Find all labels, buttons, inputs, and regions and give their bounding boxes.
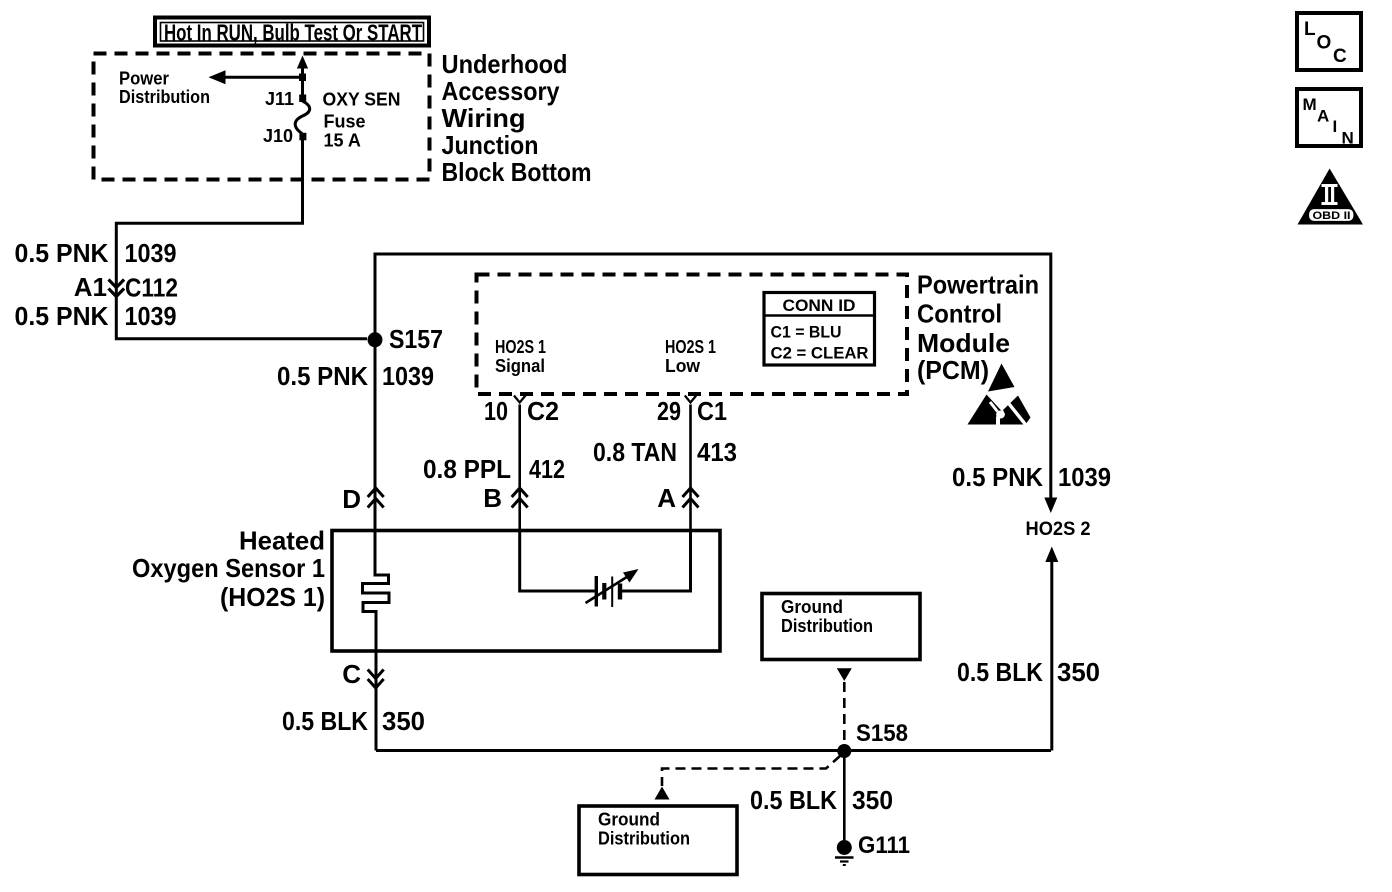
svg-text:C: C bbox=[342, 659, 361, 689]
svg-text:OXY SEN: OXY SEN bbox=[323, 90, 401, 110]
svg-text:29: 29 bbox=[657, 396, 681, 426]
svg-text:413: 413 bbox=[697, 437, 737, 467]
svg-text:(PCM): (PCM) bbox=[917, 355, 989, 385]
svg-text:Ground: Ground bbox=[598, 810, 660, 830]
svg-text:Wiring: Wiring bbox=[442, 103, 526, 133]
sensor cell variable arrow bbox=[586, 575, 631, 603]
left arrow to Power Distribution bbox=[223, 76, 303, 79]
svg-text:S157: S157 bbox=[389, 324, 443, 354]
svg-text:Block Bottom: Block Bottom bbox=[442, 157, 592, 187]
svg-text:Distribution: Distribution bbox=[781, 616, 873, 636]
svg-text:Oxygen Sensor 1: Oxygen Sensor 1 bbox=[132, 553, 325, 583]
svg-text:N: N bbox=[1342, 129, 1354, 148]
arrow down to HO2S 2 bbox=[1044, 498, 1057, 514]
svg-text:D: D bbox=[342, 484, 361, 514]
svg-text:0.5 BLK: 0.5 BLK bbox=[957, 657, 1043, 687]
label 0.5 BLK 350 (S158 to G111) bbox=[750, 785, 893, 815]
connector D chevrons bbox=[368, 488, 384, 508]
wire pin29 down to A bbox=[689, 405, 692, 531]
label HO2S 1 Low bbox=[665, 337, 716, 376]
svg-text:Signal: Signal bbox=[495, 356, 545, 376]
svg-text:J11: J11 bbox=[265, 89, 294, 109]
wire S158 down to G111 bbox=[843, 751, 846, 840]
svg-text:C112: C112 bbox=[125, 273, 178, 303]
svg-text:Control: Control bbox=[917, 299, 1002, 329]
sensor box HO2S1 bbox=[332, 531, 720, 652]
svg-text:HO2S 1: HO2S 1 bbox=[495, 337, 546, 357]
dashed wire S158 to lower ground box bbox=[662, 756, 841, 787]
CONN ID table bbox=[764, 293, 875, 366]
svg-text:350: 350 bbox=[852, 785, 893, 815]
up arrow to title box bbox=[301, 67, 304, 80]
wire J11 up to junction bbox=[301, 77, 304, 95]
svg-text:0.8 TAN: 0.8 TAN bbox=[593, 437, 677, 467]
label OXY SEN Fuse 15 A bbox=[323, 90, 401, 151]
svg-text:OBD II: OBD II bbox=[1313, 210, 1351, 222]
wire 0.5 PNK 1039, J10 to C112 to S157 bbox=[116, 140, 367, 339]
sensor cell loop wires bbox=[520, 531, 595, 592]
bottom ground rail wire bbox=[376, 749, 1051, 752]
svg-text:Fuse: Fuse bbox=[324, 112, 366, 132]
svg-text:CONN ID: CONN ID bbox=[783, 296, 856, 315]
svg-text:A1: A1 bbox=[74, 272, 107, 302]
label Heated Oxygen Sensor 1 (HO2S 1) bbox=[132, 526, 325, 613]
svg-text:Underhood: Underhood bbox=[442, 49, 568, 79]
label 0.8 PPL 412 bbox=[423, 454, 565, 484]
svg-text:Hot In RUN, Bulb Test Or START: Hot In RUN, Bulb Test Or START bbox=[164, 20, 422, 46]
svg-text:0.5 PNK: 0.5 PNK bbox=[15, 301, 109, 331]
connector C chevrons bbox=[368, 670, 384, 689]
svg-text:C2 = CLEAR: C2 = CLEAR bbox=[771, 344, 869, 363]
svg-text:I: I bbox=[1333, 117, 1338, 136]
label 0.5 PNK 1039 (above C112) bbox=[15, 238, 177, 268]
wire PCM feed: up from S157, across top, down right side bbox=[375, 254, 1051, 499]
svg-text:0.8 PPL: 0.8 PPL bbox=[423, 454, 511, 484]
svg-text:Low: Low bbox=[665, 356, 701, 376]
junction node at fuse feed bbox=[299, 74, 306, 82]
svg-text:J10: J10 bbox=[263, 126, 293, 146]
ground distribution box (upper) bbox=[762, 594, 920, 660]
MAIN page symbol bbox=[1297, 89, 1361, 146]
svg-text:B: B bbox=[483, 483, 502, 513]
ESD symbol bbox=[968, 364, 1031, 428]
text Power Distribution bbox=[119, 69, 210, 108]
svg-text:15 A: 15 A bbox=[324, 131, 361, 151]
terminal J10 bbox=[299, 133, 306, 141]
label 0.8 TAN 413 bbox=[593, 437, 737, 467]
label 0.5 PNK 1039 (below C112) bbox=[15, 301, 177, 331]
connector B chevrons bbox=[512, 488, 528, 508]
wire pin10 down to B bbox=[518, 405, 521, 531]
svg-text:Ground: Ground bbox=[781, 597, 843, 617]
svg-text:Heated: Heated bbox=[239, 526, 325, 556]
svg-text:Power: Power bbox=[119, 69, 169, 89]
svg-text:412: 412 bbox=[529, 454, 565, 484]
heater element bbox=[363, 531, 390, 652]
fuse OXY SEN Fuse 15 A bbox=[295, 101, 310, 134]
svg-text:C1 = BLU: C1 = BLU bbox=[771, 323, 842, 342]
label 0.5 BLK 350 (right) bbox=[957, 657, 1100, 687]
wire C down to bottom rail bbox=[375, 651, 378, 751]
svg-text:Module: Module bbox=[917, 328, 1010, 358]
dashed wire to S158 bbox=[843, 682, 846, 746]
svg-text:Junction: Junction bbox=[442, 130, 539, 160]
label 0.5 PNK 1039 (right, to HO2S 2) bbox=[952, 462, 1111, 492]
svg-text:C: C bbox=[1333, 46, 1347, 67]
svg-text:C1: C1 bbox=[697, 396, 727, 426]
svg-text:M: M bbox=[1303, 95, 1317, 114]
svg-text:A: A bbox=[657, 483, 676, 513]
arrow up from ground rail toward HO2S 2 bbox=[1045, 547, 1058, 563]
svg-text:(HO2S 1): (HO2S 1) bbox=[220, 582, 325, 612]
svg-text:1039: 1039 bbox=[125, 238, 177, 268]
svg-text:A: A bbox=[1317, 107, 1329, 126]
label 0.5 BLK 350 (below C) bbox=[282, 706, 425, 736]
svg-text:O: O bbox=[1317, 33, 1332, 54]
label 0.5 PNK 1039 (below S157) bbox=[277, 361, 434, 391]
PCM dashed box bbox=[477, 275, 908, 395]
svg-text:Accessory: Accessory bbox=[442, 76, 560, 106]
label Powertrain Control Module (PCM) bbox=[917, 270, 1039, 386]
title box Hot In RUN bbox=[155, 18, 429, 46]
terminal J11 bbox=[299, 95, 306, 103]
arrow from upper ground box bbox=[837, 668, 852, 681]
svg-text:0.5 BLK: 0.5 BLK bbox=[282, 706, 368, 736]
svg-text:350: 350 bbox=[1057, 657, 1100, 687]
svg-text:350: 350 bbox=[382, 706, 425, 736]
connector A chevrons bbox=[683, 488, 699, 508]
svg-text:G111: G111 bbox=[858, 832, 910, 859]
svg-text:0.5 PNK: 0.5 PNK bbox=[15, 238, 109, 268]
svg-text:0.5 BLK: 0.5 BLK bbox=[750, 785, 837, 815]
svg-text:L: L bbox=[1304, 19, 1316, 40]
svg-text:1039: 1039 bbox=[125, 301, 177, 331]
svg-text:Powertrain: Powertrain bbox=[917, 270, 1039, 300]
wire S157 down to D bbox=[374, 340, 377, 531]
svg-text:HO2S 1: HO2S 1 bbox=[665, 337, 716, 357]
label HO2S 1 Signal bbox=[495, 337, 546, 376]
svg-text:0.5 PNK: 0.5 PNK bbox=[277, 361, 368, 391]
pin 29 C1 connector bbox=[685, 396, 696, 403]
node S158 bbox=[837, 744, 851, 758]
svg-text:1039: 1039 bbox=[1058, 462, 1111, 492]
svg-text:S158: S158 bbox=[856, 720, 908, 747]
svg-text:C2: C2 bbox=[527, 396, 559, 426]
OBD II triangle symbol bbox=[1298, 169, 1364, 225]
svg-text:Distribution: Distribution bbox=[119, 87, 210, 107]
LOC page symbol bbox=[1297, 13, 1361, 70]
sensor cell plates bbox=[595, 576, 598, 607]
node S157 bbox=[368, 332, 383, 347]
ground G111 bbox=[837, 840, 852, 855]
junction block dashed box bbox=[94, 54, 430, 180]
svg-text:Distribution: Distribution bbox=[598, 829, 690, 849]
arrow into lower ground box bbox=[655, 787, 670, 800]
label A1 C112 bbox=[74, 272, 178, 303]
ground distribution box (lower) bbox=[579, 806, 737, 875]
svg-text:10: 10 bbox=[484, 396, 508, 426]
label Underhood Accessory Wiring Junction Block Bottom bbox=[442, 49, 592, 187]
svg-text:HO2S 2: HO2S 2 bbox=[1026, 519, 1091, 540]
pin 10 C2 connector bbox=[514, 396, 526, 403]
connector C112 chevrons bbox=[109, 280, 125, 297]
svg-text:0.5 PNK: 0.5 PNK bbox=[952, 462, 1043, 492]
svg-text:1039: 1039 bbox=[382, 361, 434, 391]
